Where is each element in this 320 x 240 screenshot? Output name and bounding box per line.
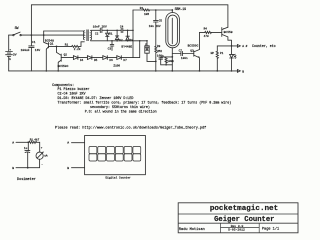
junction at (31.4,35.1): [31, 34, 33, 36]
svg-text:100n: 100n: [157, 55, 164, 58]
seven segment digit 2: [98, 147, 106, 162]
capacitor cathode 100n: [157, 55, 172, 65]
transistor Q1 BC548: [44, 31, 54, 71]
svg-text:BC550C: BC550C: [188, 44, 199, 47]
svg-text:Z100: Z100: [113, 65, 120, 68]
junction Q2 collector on base wire: [56, 46, 58, 48]
wire: output node A: [217, 45, 237, 47]
wire: HV rail between C2 and C4: [102, 29, 121, 31]
junction R3 on ground rail: [155, 70, 157, 72]
resistor R4 470: [200, 27, 222, 37]
junction D3 on HV rail: [127, 30, 129, 32]
junction D2 on HV rail: [116, 30, 118, 32]
wire: ground bottom rail: [9, 70, 238, 72]
svg-text:Transformer: small ferrite cor: Transformer: small ferrite core, primary…: [58, 101, 232, 106]
wire: switch to transformer primary (y=35.1): [21, 34, 84, 36]
wire: battery positive lead up to switch: [8, 35, 10, 51]
junction HV rail to riser: [132, 30, 134, 32]
wire: battery negative to ground rail: [8, 56, 10, 71]
wire: R1 to transformer feedback winding: [79, 42, 84, 47]
junction D1 on HV rail: [107, 30, 109, 32]
transformer T1: secondary coil: [90, 31, 93, 40]
dosimeter: meter to B wire: [16, 159, 40, 167]
capacitor C3: [108, 41, 114, 51]
svg-text:P.S: all wound in the same dir: P.S: all wound in the same direction: [85, 110, 157, 115]
svg-text:C5: C5: [159, 20, 163, 23]
wire: zener row D7 to riser: [121, 57, 133, 59]
seven segment digit 5: [124, 147, 132, 162]
wire: zener row from Q2 base: [61, 57, 73, 59]
svg-text:uA: uA: [44, 154, 48, 157]
junction LED on ground rail: [231, 70, 233, 72]
svg-text:16V: 16V: [35, 49, 41, 52]
svg-text:C3: C3: [108, 48, 112, 51]
junction Q1 emitter on ground rail: [46, 70, 48, 72]
wire: cathode branch to RC: [161, 56, 173, 59]
svg-text:100uF: 100uF: [21, 49, 30, 52]
dosimeter: resistor R1 4k7: [29, 137, 40, 143]
junction at (43.7,35.1): [43, 34, 45, 36]
transistor Q3 BC550C: [188, 32, 200, 71]
svg-text:R3: R3: [157, 45, 161, 48]
transistor Q4 BC558: [222, 27, 233, 46]
svg-text:P1: P1: [220, 52, 224, 55]
svg-text:10M: 10M: [144, 13, 149, 16]
diode D1 BY448E vertical at x=107.3: [106, 30, 113, 41]
junction tube anode: [171, 9, 173, 11]
junction RC bottom: [165, 64, 167, 66]
dosimeter: junction node: [27, 141, 29, 143]
svg-text:Radu Motisan: Radu Motisan: [179, 227, 205, 232]
wire: zener row D6-D7: [107, 57, 117, 59]
terminal A: [237, 45, 247, 49]
LED D: [230, 46, 237, 71]
junction D2 on lower multiplier wire: [116, 40, 118, 42]
dosimeter: wire A to node: [16, 141, 28, 143]
junction tube cathode on ground rail: [171, 70, 173, 72]
svg-text:A: A: [12, 142, 14, 145]
seven segment digit 6: [133, 147, 141, 162]
neon lamp F: [145, 41, 156, 62]
junction C3 on lower multiplier wire: [111, 40, 113, 42]
svg-text:B: B: [242, 70, 244, 73]
svg-text:BC550C: BC550C: [58, 65, 69, 68]
svg-text:C7: C7: [179, 50, 183, 53]
svg-text:3V: 3V: [13, 53, 17, 56]
wire: C7 to Q3 base: [182, 53, 193, 55]
diode D3 BY448E vertical at x=127.6: [126, 30, 134, 42]
zener D4 100V: [73, 56, 83, 63]
capacitor C5 10n 2KV: [149, 10, 163, 46]
svg-text:A: A: [242, 45, 244, 48]
terminal B: [237, 70, 244, 74]
resistor 100k cathode load: [165, 57, 174, 65]
svg-text:b: b: [9, 57, 11, 61]
svg-text:A: A: [67, 141, 69, 144]
dosimeter: wire resistor to meter: [37, 142, 40, 152]
junction Q3 emitter on ground rail: [199, 70, 201, 72]
svg-text:HP: HP: [211, 52, 215, 55]
title block row dividers: [178, 214, 298, 223]
svg-text:BC558: BC558: [224, 31, 233, 34]
svg-text:P1 Piezzo buzzer: P1 Piezzo buzzer: [58, 87, 90, 92]
wire: anode feed line y=10: [133, 9, 143, 11]
wire: +3V top rail from switch node to Q4 emitter: [31, 5, 228, 35]
svg-text:Geiger Counter: Geiger Counter: [214, 216, 274, 224]
transformer T1: core: [87, 30, 88, 41]
svg-text:Components:: Components:: [52, 84, 74, 88]
svg-text:Q1: Q1: [50, 42, 54, 45]
svg-text:D: D: [235, 57, 237, 60]
junction at (139.7,40.8): [139, 40, 141, 42]
dosimeter: capacitor 1u: [24, 142, 30, 167]
digital counter: wire B: [72, 167, 85, 169]
svg-text:2M2: 2M2: [157, 50, 162, 53]
svg-text:B: B: [12, 167, 14, 170]
junction lamp top: [146, 40, 148, 42]
zener D6 100V: [103, 56, 113, 63]
svg-text:D1-D3: BY448E D4-D7: Zenner 1: D1-D3: BY448E D4-D7: Zenner 100V D:LED: [58, 96, 134, 101]
svg-text:D5: D5: [94, 59, 98, 62]
seven segment digit 1: [89, 147, 97, 162]
svg-text:+: +: [41, 147, 43, 150]
switch SW: [13, 26, 22, 36]
resistor R2 10M: [140, 7, 150, 16]
svg-text:#: #: [246, 45, 248, 48]
junction piezo on ground rail: [216, 70, 218, 72]
svg-text:Please read: http://www.centro: Please read: http://www.centronic.co.uk/…: [55, 125, 206, 130]
wire: R2 to tube anode: [150, 10, 173, 13]
svg-text:C2-C4 10nF 2KV: C2-C4 10nF 2KV: [58, 93, 86, 97]
svg-text:D1: D1: [109, 33, 113, 36]
geiger tube SBM-19 body: [166, 13, 180, 48]
capacitor C1 100uF 16V: [21, 35, 41, 71]
svg-text:B: B: [67, 167, 69, 170]
junction lamp bottom to R3 line: [155, 61, 157, 63]
wire: Q1 base wire: [49, 45, 72, 47]
title block bottom cell dividers: [221, 223, 260, 233]
svg-text:2.2k: 2.2k: [74, 47, 81, 51]
wire: battery to switch horizontal: [9, 34, 13, 36]
piezo P1 HP: [211, 46, 224, 71]
svg-text:1u: 1u: [24, 147, 28, 150]
zener D7 100V: [117, 56, 127, 63]
svg-text:Digital Counter: Digital Counter: [106, 176, 131, 180]
svg-text:Dosimeter: Dosimeter: [17, 177, 36, 182]
svg-text:D6: D6: [109, 59, 113, 62]
title block outer box: [178, 203, 298, 233]
svg-text:-: -: [41, 163, 43, 166]
transistor Q2 BC550C (regulator): [57, 46, 69, 71]
svg-text:470: 470: [204, 35, 209, 38]
digital counter: wire A: [72, 142, 85, 144]
svg-text:BY448E: BY448E: [121, 45, 132, 48]
junction collector node: [231, 45, 233, 47]
svg-text:D7: D7: [123, 59, 127, 62]
wire: HV riser x=133 from tube feed down to zener row: [132, 10, 134, 58]
svg-text:10nF 2KV: 10nF 2KV: [93, 25, 107, 28]
wire: coupling from cathode to C7: [172, 53, 181, 55]
zener D5 100V: [87, 56, 97, 63]
svg-text:R1: R1: [65, 43, 69, 46]
seven segment digit 4: [115, 147, 123, 162]
dosimeter: junction cap bottom: [27, 167, 29, 169]
capacitor C7 100n: [179, 50, 188, 60]
seven segment digit 3: [107, 147, 115, 162]
resistor R3: [155, 45, 163, 71]
junction C5 tap on anode line: [155, 9, 157, 11]
components list text: [52, 84, 231, 115]
svg-text:10n 2KV: 10n 2KV: [149, 25, 161, 28]
junction cathode node: [171, 56, 173, 58]
wire: secondary top to HV rail: [91, 29, 101, 31]
digital counter box: [85, 136, 146, 175]
svg-text:4k7: 4k7: [34, 137, 39, 141]
svg-text:Counter, etc: Counter, etc: [252, 44, 276, 48]
resistor R1 2.2k: [65, 43, 81, 51]
svg-text:Page 1/1: Page 1/1: [262, 226, 279, 231]
svg-text:D4: D4: [80, 59, 84, 62]
svg-text:SW: SW: [15, 26, 19, 30]
wire: rail y=31 from Q1 collector riser to transformer: [44, 30, 85, 32]
battery 3V: [6, 49, 17, 62]
svg-text:pocketmagic.net: pocketmagic.net: [210, 205, 278, 213]
wire: zener row D4-D5: [78, 57, 88, 59]
svg-text:R4: R4: [204, 27, 208, 30]
transformer T1: primary coil: [82, 31, 85, 40]
svg-text:5-05-2012: 5-05-2012: [228, 227, 245, 231]
svg-text:Q2: Q2: [64, 54, 68, 57]
svg-text:SBM-19: SBM-19: [175, 7, 187, 11]
dosimeter: meter uA: [36, 147, 48, 167]
wire: riser x=139.7 from lower wire to zener row: [133, 41, 140, 58]
svg-text:100k: 100k: [167, 59, 174, 63]
capacitor C4 10n 2KV: [120, 25, 124, 32]
svg-text:D2: D2: [119, 39, 123, 42]
wire: tube cathode down to ground: [171, 48, 173, 71]
wire: secondary bottom / multiplier lower wire y=40.8: [91, 39, 147, 42]
svg-text:C1: C1: [32, 41, 36, 44]
diode D2 BY448E vertical at x=117.1: [115, 30, 123, 42]
capacitor C2 10nF 2KV: [93, 25, 107, 35]
svg-text:secondary: 550turns thin wire): secondary: 550turns thin wire): [90, 105, 150, 110]
junction Q2 emitter on ground rail: [57, 70, 59, 72]
junction D3 on lower multiplier wire: [127, 40, 129, 42]
wire: HV rail from C4 to HV riser: [123, 29, 133, 31]
svg-text:100n: 100n: [181, 57, 188, 60]
wire: zener row D5-D6: [92, 57, 103, 59]
svg-text:C2: C2: [95, 33, 99, 36]
